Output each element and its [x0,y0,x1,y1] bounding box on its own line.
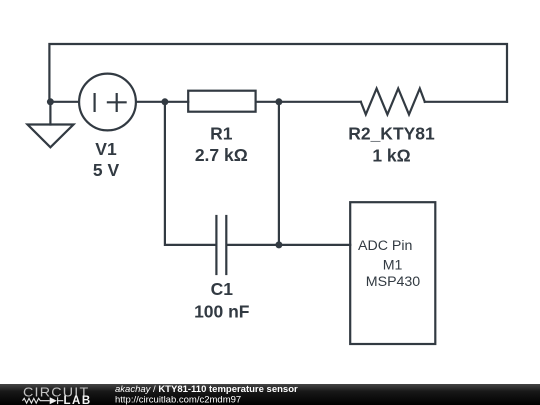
svg-text:V1: V1 [95,139,117,159]
svg-text:http://circuitlab.com/c2mdm97: http://circuitlab.com/c2mdm97 [115,394,241,405]
svg-text:R2_KTY81: R2_KTY81 [348,124,435,144]
svg-text:MSP430: MSP430 [366,274,421,290]
svg-text:ADC Pin: ADC Pin [358,238,412,254]
svg-text:5 V: 5 V [93,160,120,180]
svg-text:100 nF: 100 nF [194,301,250,321]
svg-text:M1: M1 [383,257,403,273]
svg-text:2.7 kΩ: 2.7 kΩ [195,145,248,165]
svg-text:C1: C1 [211,279,234,299]
svg-text:1 kΩ: 1 kΩ [372,145,410,165]
svg-text:LAB: LAB [64,395,92,405]
svg-text:R1: R1 [210,123,233,143]
